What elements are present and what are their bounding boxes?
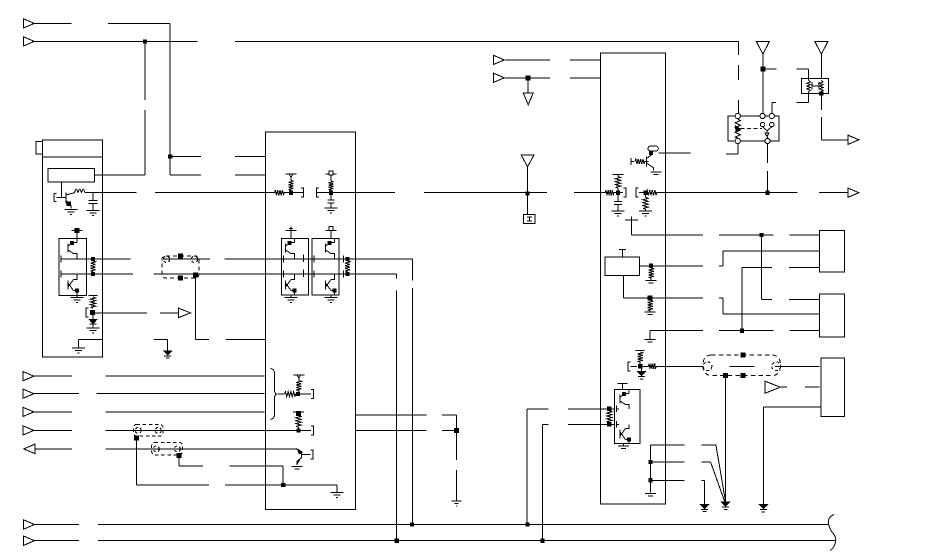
resistor R12 xyxy=(615,174,620,192)
resistor R13 horiz xyxy=(605,190,614,195)
wire line y259 U1 to U2 xyxy=(102,258,412,260)
ground x725 arrow xyxy=(722,502,730,509)
gate contact U1b lower xyxy=(61,271,64,278)
wire sense line y424 corner xyxy=(542,423,614,425)
connector block J1 xyxy=(820,230,845,272)
connector X2 pin circles xyxy=(135,427,161,433)
wire x761 drop xyxy=(760,235,762,300)
resistor R7 xyxy=(345,257,350,275)
wire net-P2 drop to K2 xyxy=(737,41,739,113)
wire x542 drop xyxy=(541,424,543,540)
wire bottom bus 2 xyxy=(34,540,835,542)
node R6 bus dot xyxy=(329,191,332,194)
resistor R8 horiz xyxy=(278,392,296,397)
node R12 bus dot xyxy=(616,191,619,194)
wire net-P6 xyxy=(33,429,311,431)
wire vertical x412 down xyxy=(412,259,414,525)
ground D1 xyxy=(87,328,100,333)
wire net-P4 xyxy=(33,393,265,395)
fuse F1 H-mark xyxy=(812,82,819,90)
wire y466 into U2 xyxy=(179,465,283,467)
capacitor C1 xyxy=(89,193,98,210)
connector X1 pin circle left xyxy=(163,256,169,262)
transistor U2b lower xyxy=(326,274,337,295)
node X4 junction xyxy=(724,374,728,378)
node L1 dot xyxy=(760,233,763,236)
node F1 out xyxy=(820,92,823,95)
wire net-P3 xyxy=(33,375,265,377)
wire x723 link lower xyxy=(722,298,724,314)
ground U2a xyxy=(285,295,298,302)
ground x650 xyxy=(645,494,656,499)
fuse F1 box xyxy=(801,78,828,93)
wire U2 ground drop xyxy=(336,485,338,492)
connector X1 dashed box xyxy=(162,256,199,278)
node U1b line1 dot xyxy=(91,257,94,260)
pullup R10 top xyxy=(293,412,304,416)
node R4 bus dot xyxy=(289,190,292,194)
wire out y445 xyxy=(650,444,716,446)
wire y156 to middle module xyxy=(170,156,265,158)
module U3 outline xyxy=(600,53,665,504)
wire y331 ground leg xyxy=(650,331,665,339)
connector X4 keys xyxy=(741,353,745,378)
ground R16 xyxy=(646,281,657,286)
wire cross to L1 line xyxy=(632,224,666,236)
resistor R9 vert xyxy=(293,375,304,394)
wire K2 pin3 up xyxy=(772,103,809,114)
gate contacts U2b xyxy=(314,256,344,278)
wire y298 out xyxy=(624,297,666,299)
wire y339 to U2 xyxy=(196,338,266,340)
wire y175 to middle module xyxy=(170,174,265,176)
node bus1 dots xyxy=(410,523,529,526)
crystal Y1 mark xyxy=(527,217,532,221)
wire net-P8 xyxy=(505,59,600,61)
wire U1b line1 xyxy=(64,258,102,260)
wire P9 tap drop xyxy=(527,78,529,93)
capacitor C2 xyxy=(327,193,334,208)
pin bracket net-P6 xyxy=(311,426,314,435)
resistor R16 xyxy=(649,268,654,280)
ground Q1 emitter xyxy=(65,210,78,215)
resistor R17 xyxy=(648,301,653,312)
wire L4 y298 xyxy=(665,297,723,299)
wire vertical x396 down xyxy=(396,274,398,541)
pin bracket bus right xyxy=(316,188,319,197)
wire L3 y266 xyxy=(665,265,723,267)
node junction x170 y156 xyxy=(169,155,172,158)
transistor array U3a box xyxy=(614,390,640,444)
relay K2 coil xyxy=(735,119,740,138)
wire L3b y267 xyxy=(742,266,820,268)
resistor R14 horiz xyxy=(646,190,656,195)
node crystal bus dot xyxy=(526,192,529,195)
wire y415 stub xyxy=(355,414,456,416)
wire net-P1 horizontal xyxy=(34,22,170,24)
ground U2 lower xyxy=(331,493,344,498)
wire buffer feed y313 xyxy=(93,312,179,314)
wire net-P5 xyxy=(33,411,265,413)
relay K2 pin circles bottom xyxy=(735,138,770,143)
module U1 top divider xyxy=(43,156,103,158)
wire L6 y331 xyxy=(665,330,819,332)
transistor U2b upper xyxy=(326,239,335,259)
node X1 junction xyxy=(194,273,198,277)
node junction net-P2/A xyxy=(143,40,146,43)
relay K2 box xyxy=(728,116,779,141)
ground C3 xyxy=(612,211,625,216)
ground C2 xyxy=(325,208,338,213)
node R3 out xyxy=(90,311,94,315)
node R8 junction xyxy=(296,393,312,396)
resistor R6 xyxy=(328,175,333,193)
wire y485 into U2 xyxy=(136,484,337,486)
transistor array U2a box xyxy=(282,239,309,296)
ground C1 xyxy=(87,211,100,216)
antenna T relay coil xyxy=(619,250,626,257)
wire x742 drop xyxy=(741,267,743,330)
pin bracket R8 xyxy=(311,390,314,399)
wire sense line y409 corner xyxy=(527,408,614,410)
power symbol down-triangle 1 xyxy=(523,93,533,105)
wire X1 down to y339 xyxy=(195,275,197,339)
wire K1 out y266 xyxy=(640,265,666,267)
wire X3 step down xyxy=(178,456,180,466)
connector X2 dashed box xyxy=(134,424,163,436)
node y298 junction xyxy=(648,296,652,300)
wire diagonal 2 xyxy=(711,462,725,501)
gate contact U1b upper xyxy=(61,256,64,263)
connector X4 dashed box xyxy=(703,355,780,376)
wire K2 pin1 down xyxy=(726,144,738,154)
module U1 outline xyxy=(43,140,103,357)
transistor array U1b box xyxy=(59,239,87,296)
pin brackets bus U3 xyxy=(623,188,638,197)
node bus2 dots xyxy=(395,539,544,542)
connector X4 pin circles xyxy=(703,362,781,371)
wire y299 to J2 xyxy=(761,298,819,300)
wire L1 y235 xyxy=(665,234,819,236)
transistor Q1 xyxy=(54,193,75,209)
wire crystal feed xyxy=(527,167,529,215)
pullup R6 top xyxy=(326,171,337,175)
wire out y462 xyxy=(650,461,710,463)
relay K2 contacts xyxy=(760,122,774,138)
crystal Y1 box xyxy=(523,214,535,223)
ground stub y339 xyxy=(153,339,167,350)
resistor R5 horiz xyxy=(275,190,285,195)
node y69 tap xyxy=(761,67,765,71)
module U2 outline xyxy=(265,132,355,509)
ground arrow R18 xyxy=(638,366,646,379)
wire L2 y251 xyxy=(723,250,820,252)
pin bracket Q3 base xyxy=(631,158,634,165)
power symbol down-triangle 4 xyxy=(815,42,828,55)
input connector P13 xyxy=(24,536,35,545)
resistor R20 xyxy=(607,411,612,423)
wire diagonal 1 xyxy=(716,445,726,502)
pin bracket R18 xyxy=(628,362,637,371)
input connector P5 xyxy=(23,407,34,416)
node K1 out dot xyxy=(650,264,653,267)
wire x283 drop xyxy=(282,466,284,485)
connector X3 dashed box xyxy=(152,443,183,455)
ground x456 xyxy=(452,501,462,506)
node U1b line2 dot xyxy=(91,272,94,275)
power symbol down-triangle 3 xyxy=(756,42,769,55)
power cross node xyxy=(625,217,638,224)
connector X3 pin circles xyxy=(153,446,180,452)
output connector P10 xyxy=(848,135,859,144)
pullup R18 top xyxy=(636,350,645,352)
transistor Q2 xyxy=(297,449,310,465)
input connector P8 xyxy=(493,55,504,64)
ground U1b xyxy=(71,295,84,302)
wire K1 bottom drop xyxy=(623,276,625,299)
pin bracket bus left xyxy=(301,188,304,197)
diode D1 xyxy=(90,315,97,328)
node R10 bus dot xyxy=(297,429,300,432)
input connector P4 xyxy=(23,389,34,398)
resistor R3 pullup mark xyxy=(89,296,98,308)
gate contacts U2a xyxy=(284,255,304,278)
transistor Q3 loop xyxy=(648,146,658,151)
resistor R2 xyxy=(90,261,95,272)
wire A2 out xyxy=(780,386,819,388)
connector X1 pin circle right xyxy=(191,256,197,262)
wire K2 pin5 down xyxy=(767,144,769,193)
resistor R18 xyxy=(638,352,643,366)
gate contacts U3a xyxy=(617,406,620,428)
wire out y480 xyxy=(650,479,704,481)
pullup U2a xyxy=(286,227,297,239)
ground R17 xyxy=(645,312,656,317)
ground arrow y351 xyxy=(164,351,172,358)
ground U1 internal xyxy=(72,348,85,353)
resistor R11 horiz xyxy=(635,159,649,164)
node net-P9 tap xyxy=(526,76,530,80)
pin bracket R3 xyxy=(86,308,89,317)
wire y430 stub xyxy=(355,430,456,432)
transistor U3a lower xyxy=(620,424,631,443)
wire vertical x170 from net-P1 xyxy=(169,23,171,175)
transistor U3a upper xyxy=(620,390,629,409)
buffer A1 xyxy=(179,308,192,317)
wire U1 internal ground y339 xyxy=(79,339,103,347)
node R14 bus dot xyxy=(644,191,647,194)
connector block J2 xyxy=(820,294,845,337)
pullup R12 top xyxy=(613,173,624,175)
wire net-P7 xyxy=(35,448,298,450)
inductor L1 xyxy=(75,189,86,193)
resistor R19 horiz xyxy=(640,364,656,369)
input connector P6 xyxy=(23,426,34,435)
transistor U2a upper xyxy=(286,239,295,259)
wire x723 link upper xyxy=(722,251,724,266)
wire vertical x145 to U1 control xyxy=(95,41,145,175)
transistor Q3 xyxy=(645,151,654,170)
regulator block U1a xyxy=(48,169,94,182)
transistor U2a lower xyxy=(286,274,297,295)
output connector P7 xyxy=(24,444,35,453)
node X2 junction xyxy=(134,436,138,440)
input connector P2 xyxy=(23,37,34,46)
node X3 junction xyxy=(177,454,181,458)
wire x527 drop xyxy=(526,409,528,525)
input connector P9 xyxy=(493,73,504,82)
wire x725 drop xyxy=(725,376,727,502)
ground Q2 xyxy=(292,467,303,472)
pullup U1b xyxy=(72,229,83,239)
wire y366 to X4 xyxy=(665,365,819,367)
buffer A2 xyxy=(765,381,780,393)
relay K2 pin circles top xyxy=(735,113,774,118)
wire x704 drop xyxy=(704,480,706,504)
ground y339 U3 xyxy=(645,340,656,345)
wire U1b line2 xyxy=(64,273,102,275)
relay coil K1 box xyxy=(605,257,640,276)
input connector P12 xyxy=(24,520,35,529)
wire tri4 drop xyxy=(820,54,822,78)
connector X1 key top xyxy=(179,254,183,258)
pin bracket Q2 xyxy=(311,450,314,459)
transistor array U2b box xyxy=(312,239,339,296)
transistor U1b upper xyxy=(68,239,77,259)
output connector P11 xyxy=(848,188,859,197)
input connector P1 xyxy=(23,19,34,28)
wire x650 collector rail xyxy=(649,445,651,493)
module U1 side tab xyxy=(36,142,43,154)
node x650 dots xyxy=(649,461,652,482)
input connector P3 xyxy=(23,372,34,381)
fuse F1 right coil xyxy=(820,81,824,92)
resistor R4 xyxy=(288,178,293,191)
wire y69 stub xyxy=(763,68,809,70)
wire main bus y193 xyxy=(85,192,848,194)
wire net-P2 horizontal xyxy=(34,40,738,42)
node y485 junction xyxy=(282,484,285,487)
wire bottom bus 1 xyxy=(34,524,828,526)
capacitor C3 xyxy=(614,193,622,211)
power symbol down-triangle 2 xyxy=(521,155,534,167)
node y430 x456 junction xyxy=(455,429,459,433)
node R18 dot xyxy=(639,365,642,368)
pullup R4 top xyxy=(286,174,297,177)
wire tri3 drop xyxy=(762,54,764,113)
ground U3a xyxy=(618,444,629,451)
resistor R15 xyxy=(643,193,648,211)
node K2 bus dot xyxy=(766,191,769,194)
resistor R10 xyxy=(296,416,301,431)
node U3a gate dots xyxy=(608,407,611,426)
ground Q3 xyxy=(651,172,662,177)
ground U2b xyxy=(325,295,338,302)
relay K2 link xyxy=(741,127,763,129)
wire L5 y314 xyxy=(723,313,820,315)
wire y366 out xyxy=(656,365,665,367)
wire line y274 U1 to U2 xyxy=(102,273,396,275)
ground x704 xyxy=(701,504,709,511)
wire U1a base feed xyxy=(61,182,63,198)
break mark bottom right xyxy=(828,515,835,551)
pullup U3a xyxy=(618,384,628,390)
wire F1 out drop xyxy=(821,94,848,140)
pullup U2b xyxy=(326,227,337,239)
connector block J3 xyxy=(821,358,845,417)
connector X1 key bottom xyxy=(179,276,183,280)
node x742 dot xyxy=(740,329,743,332)
wire x456 drop xyxy=(456,415,458,501)
fuse F1 left coil xyxy=(807,69,811,102)
ground R15 xyxy=(639,211,652,216)
transistor U1b lower xyxy=(68,274,79,295)
wire Q3 out y153 xyxy=(658,153,738,154)
wire y407 to J3 xyxy=(763,406,821,408)
wire X2 step down xyxy=(135,438,137,485)
brace U2 input group xyxy=(271,369,278,420)
wire net-P9 xyxy=(505,77,600,79)
ground x763 xyxy=(759,505,767,512)
wire x763 drop xyxy=(762,407,764,504)
